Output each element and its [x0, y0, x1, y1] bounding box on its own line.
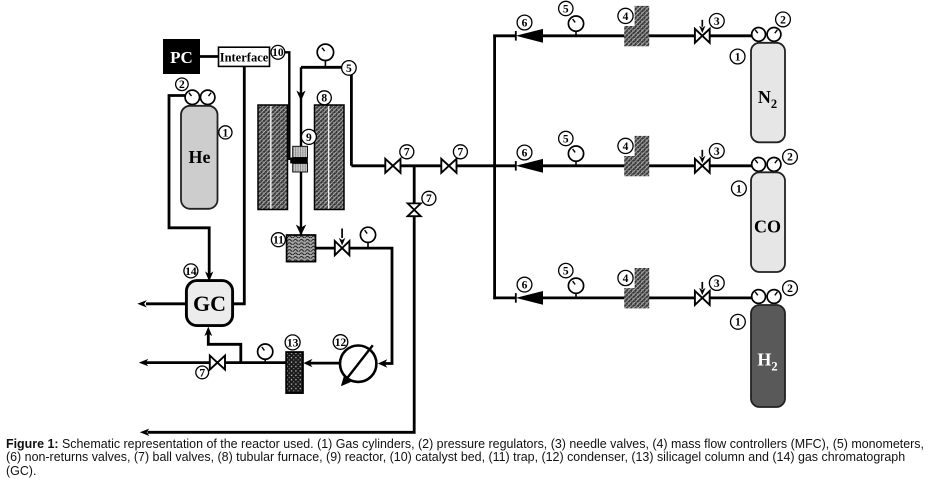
label 13 (silicagel column)	[285, 335, 300, 350]
needle valve after trap with stem arrow	[341, 229, 343, 239]
svg-text:5: 5	[346, 63, 352, 75]
wire condenser to silicagel column	[310, 362, 340, 365]
wire bottom sample line with vent	[146, 361, 287, 364]
gas chromatograph GC 14	[186, 281, 232, 326]
label 14 (GC)	[184, 264, 198, 278]
svg-text:7: 7	[199, 367, 205, 379]
gas cylinder H2 (1)	[751, 305, 785, 407]
label 7 (branch ball valve)	[422, 191, 436, 205]
tubular furnace 8 left block	[258, 105, 288, 210]
svg-text:1: 1	[735, 317, 741, 329]
svg-text:3: 3	[714, 16, 720, 28]
label 7 (vent ball valve)	[196, 366, 209, 379]
silicagel column 13	[286, 352, 303, 393]
svg-text:4: 4	[623, 273, 629, 285]
svg-text:5: 5	[563, 3, 569, 15]
label 9 (reactor)	[301, 129, 316, 144]
label 7 (right ball valve)	[453, 145, 467, 159]
svg-text:11: 11	[273, 235, 284, 247]
label 10 (catalyst bed)	[271, 45, 285, 59]
monometer 5 (CO line)	[575, 154, 577, 166]
label 5 (N2)	[559, 1, 573, 15]
svg-text:6: 6	[522, 17, 528, 29]
needle valve 3 (H2 line) with stem arrow	[701, 282, 703, 289]
label 5 (CO)	[559, 131, 573, 145]
wire trap outlet to condenser drop	[316, 248, 392, 363]
pressure regulator 2 (CO cylinder)	[752, 158, 766, 172]
label 5 (monometer at reactor outlet)	[342, 61, 357, 76]
gauge after trap valve	[367, 235, 369, 248]
gauge on sample line	[264, 352, 266, 363]
wire manifold vertical	[493, 35, 496, 300]
wire Interface down to GC right side	[232, 66, 245, 303]
Interface box	[219, 47, 270, 66]
tubular furnace 8 right block	[315, 105, 345, 210]
label 3 (H2)	[709, 276, 724, 291]
ball valve 7 on branch (vertical)	[408, 203, 421, 216]
svg-text:8: 8	[321, 93, 327, 105]
figure caption	[6, 438, 932, 479]
monometer 5 (N2 line)	[575, 24, 577, 36]
svg-text:5: 5	[563, 133, 569, 145]
label 3 (N2)	[709, 14, 724, 29]
wire PC to Interface	[198, 55, 220, 58]
label 6 (CO)	[517, 145, 532, 160]
label 1 (CO)	[732, 181, 747, 196]
mass flow controller 4 (CO line)	[624, 136, 649, 176]
pressure regulator gauges on He cylinder (2)	[185, 90, 199, 104]
gas cylinder N2 (1)	[751, 43, 785, 143]
label 6 (H2)	[517, 277, 532, 292]
wire from label 10 down to catalyst bed	[284, 52, 290, 160]
needle valve 3 (N2 line) with stem arrow	[701, 20, 703, 27]
label 2 (CO)	[783, 149, 798, 164]
svg-text:10: 10	[272, 47, 284, 59]
svg-text:2: 2	[780, 14, 786, 26]
gauge above reactor with stem	[324, 52, 326, 67]
wire reactor tube vertical	[300, 67, 302, 234]
svg-text:6: 6	[522, 280, 528, 292]
svg-text:3: 3	[714, 278, 720, 290]
label 2 (N2)	[776, 12, 791, 27]
svg-text:1: 1	[735, 51, 741, 63]
svg-text:CO: CO	[754, 217, 781, 237]
svg-text:7: 7	[426, 193, 432, 205]
label 6 (N2)	[517, 15, 532, 30]
ball valve 7 (left)	[385, 159, 400, 173]
pressure regulator 2 (H2 cylinder)	[752, 290, 766, 304]
svg-text:9: 9	[306, 132, 312, 144]
label 1 (H2)	[731, 314, 746, 329]
label 4 (N2)	[618, 8, 633, 23]
wire sample line up into GC bottom	[208, 332, 241, 363]
label 11 (trap)	[271, 233, 285, 247]
svg-text:7: 7	[404, 147, 410, 159]
svg-text:GC: GC	[193, 291, 226, 316]
needle valve 3 (CO line) with stem arrow	[701, 150, 703, 157]
catalyst bed 10 (black band)	[290, 158, 308, 164]
svg-text:2: 2	[787, 152, 793, 164]
label 4 (CO)	[618, 138, 633, 153]
wire N2 supply line	[493, 34, 516, 37]
svg-text:14: 14	[185, 266, 197, 278]
label 4 (H2)	[618, 270, 633, 285]
trap 11	[287, 235, 316, 262]
label 2 (He pressure regulator)	[176, 78, 189, 91]
label 2 (H2)	[783, 281, 798, 296]
pressure regulator 2 (N2 cylinder)	[752, 28, 766, 42]
non-return valve 6 (CO line)	[515, 161, 517, 171]
gas cylinder He (1)	[181, 106, 218, 209]
svg-text:1: 1	[223, 127, 229, 139]
mass flow controller 4 (N2 line)	[624, 6, 649, 46]
svg-text:PC: PC	[170, 48, 193, 67]
svg-text:4: 4	[623, 11, 629, 23]
svg-text:3: 3	[714, 146, 720, 158]
wire He cylinder loop to GC top	[169, 96, 209, 276]
mass flow controller 4 (H2 line)	[624, 268, 649, 308]
label 3 (CO)	[709, 144, 724, 159]
svg-text:He: He	[189, 147, 211, 167]
wire H2 supply line	[493, 296, 516, 299]
condenser 12	[340, 346, 376, 382]
svg-text:6: 6	[522, 147, 528, 159]
wire GC left outlet	[146, 302, 187, 305]
svg-text:Interface: Interface	[220, 51, 269, 65]
label 7 (left ball valve)	[400, 145, 414, 159]
label 1 (N2)	[730, 49, 745, 64]
label 8 (tubular furnace)	[317, 91, 331, 105]
reactor 9 upper packing	[293, 146, 308, 157]
gas cylinder CO (1)	[751, 172, 785, 272]
svg-text:5: 5	[563, 266, 569, 278]
svg-text:2: 2	[179, 79, 185, 91]
monometer 5 (H2 line)	[575, 286, 577, 298]
label 5 (H2)	[559, 263, 573, 277]
wire branch from T-junction down to bottom vent	[413, 166, 416, 205]
reactor 9 lower packing	[293, 163, 308, 172]
svg-text:2: 2	[787, 283, 793, 295]
svg-text:4: 4	[623, 141, 629, 153]
PC box	[163, 39, 200, 74]
svg-text:12: 12	[335, 337, 347, 349]
wire main process line	[351, 164, 385, 167]
non-return valve 6 (N2 line)	[515, 31, 517, 41]
non-return valve 6 (H2 line)	[515, 293, 517, 303]
wire reactor top line over to monometer 5 and down to main line	[301, 67, 351, 166]
ball valve 7 (right)	[441, 159, 456, 173]
label 12 (condenser)	[333, 335, 348, 350]
svg-text:7: 7	[458, 147, 464, 159]
svg-text:1: 1	[736, 183, 742, 195]
svg-text:13: 13	[287, 337, 299, 349]
label 1 (He cylinder)	[219, 126, 232, 139]
wire CO supply line	[493, 164, 516, 167]
ball valve 7 on vent line	[210, 356, 225, 370]
